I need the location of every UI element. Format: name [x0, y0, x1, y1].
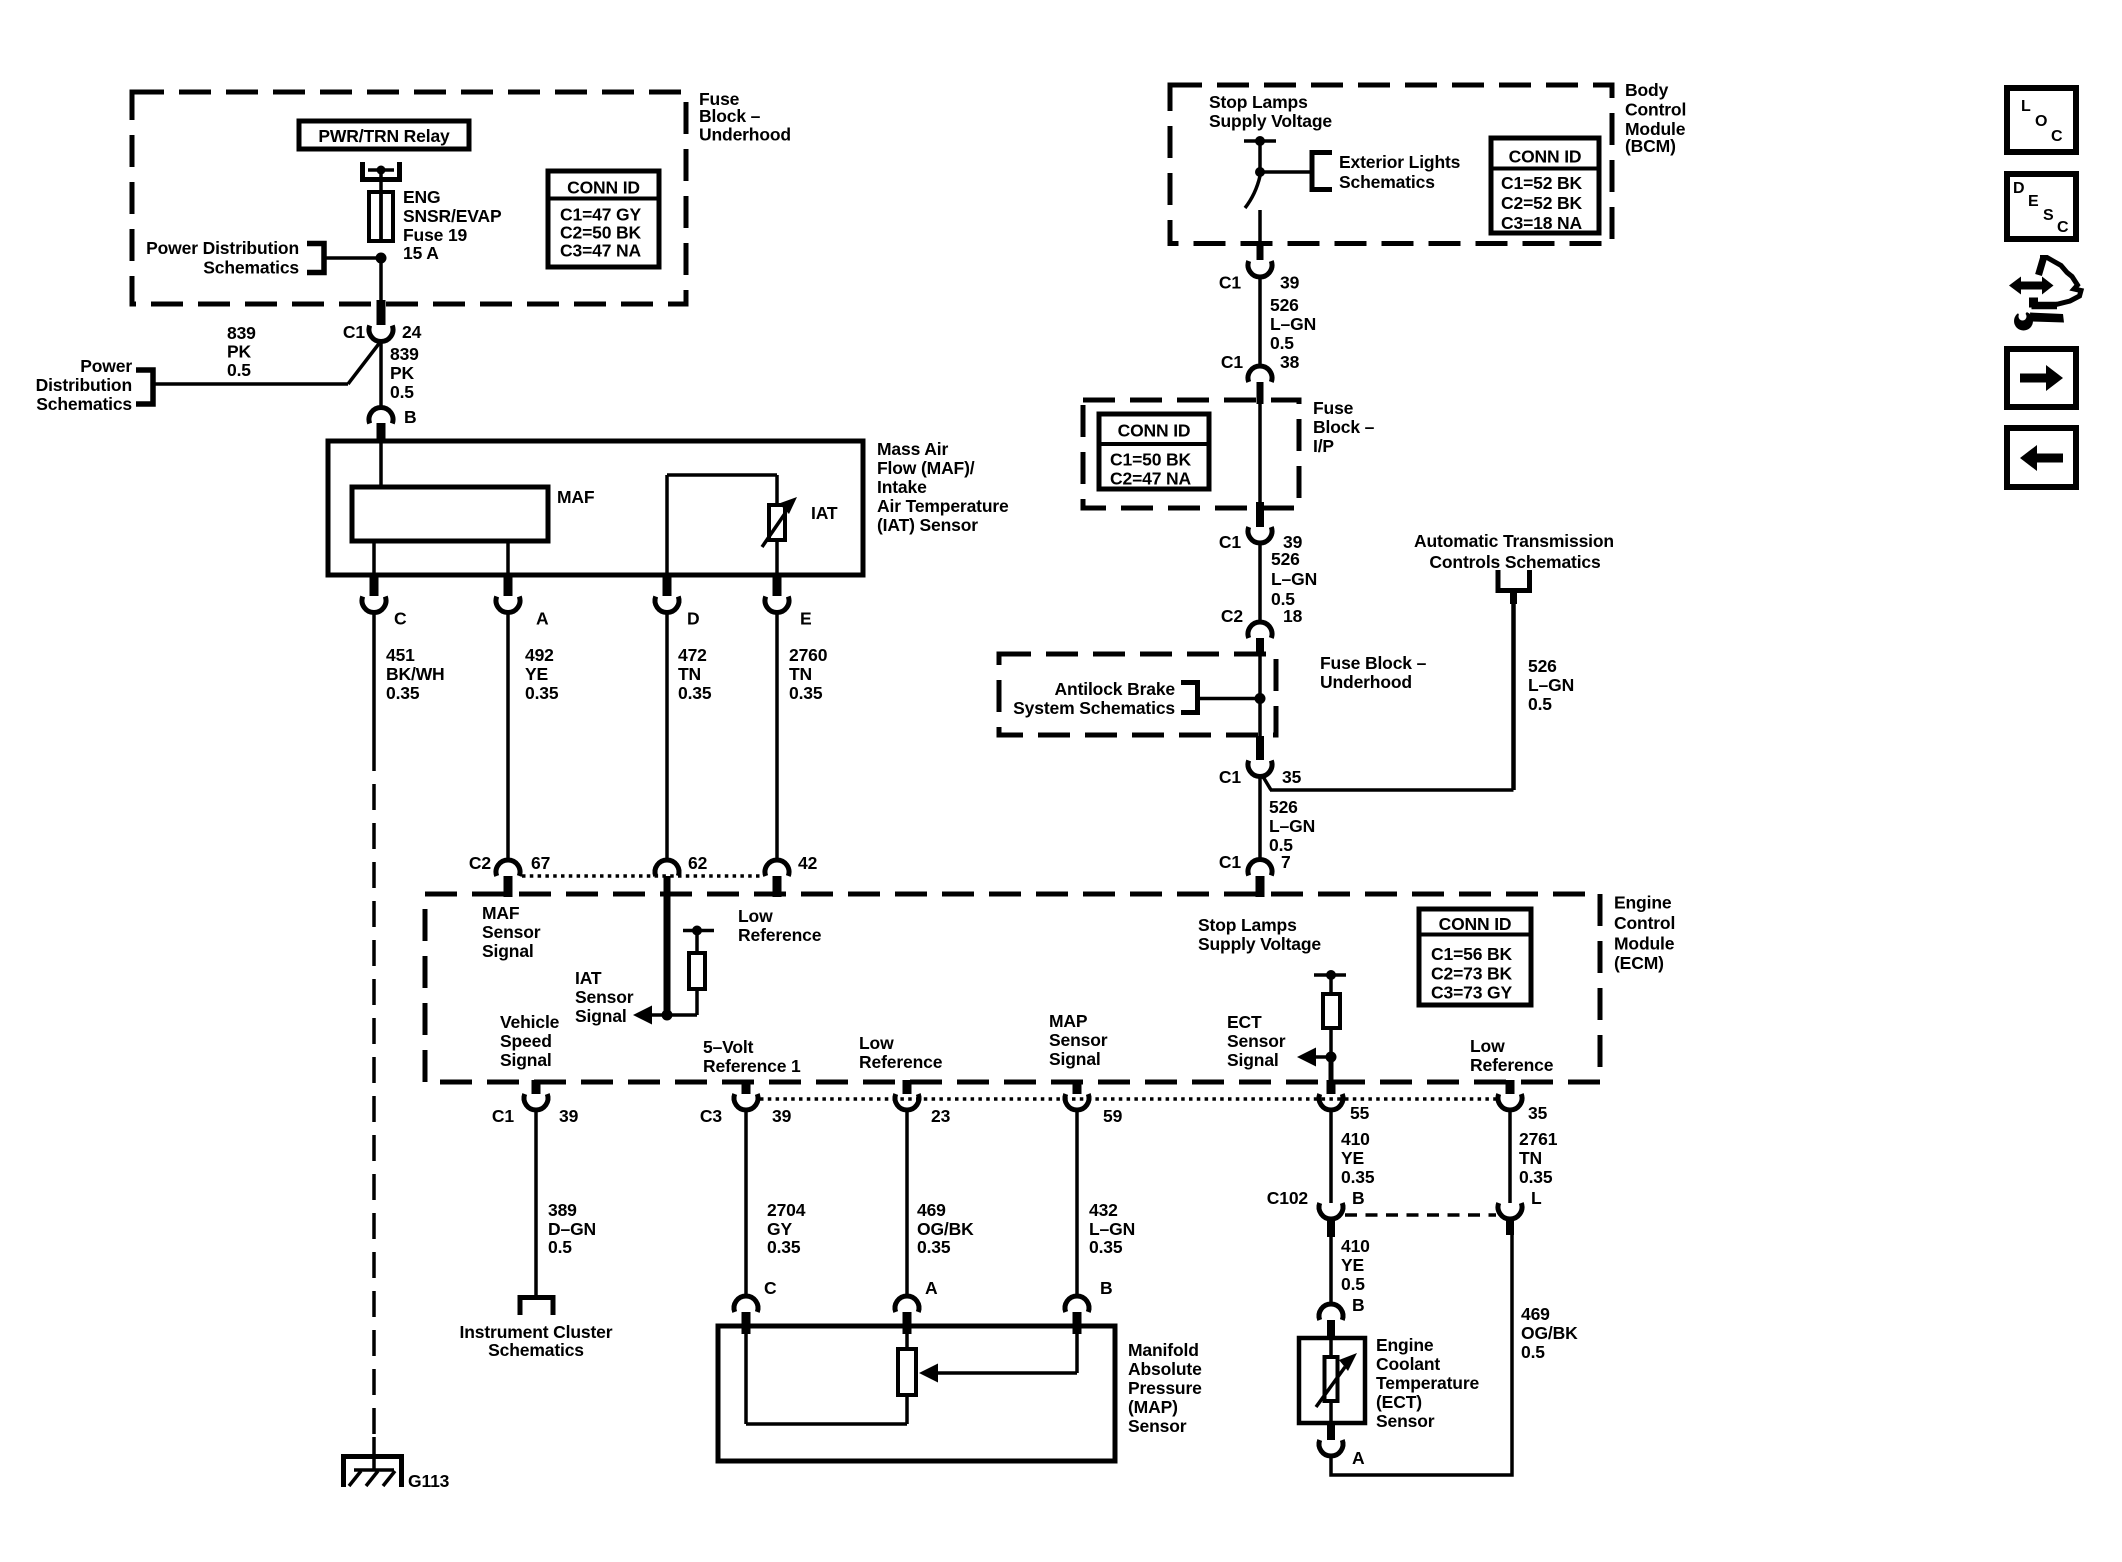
svg-text:410: 410: [1341, 1236, 1370, 1256]
svg-text:B: B: [1352, 1188, 1365, 1208]
wire 432 L-GN 0.35: [1077, 1110, 1135, 1297]
svg-text:Low: Low: [859, 1033, 894, 1053]
svg-text:Sensor: Sensor: [1227, 1031, 1286, 1051]
svg-text:Exterior Lights: Exterior Lights: [1339, 152, 1461, 172]
svg-text:526: 526: [1271, 549, 1300, 569]
svg-text:Supply Voltage: Supply Voltage: [1209, 111, 1332, 131]
svg-text:GY: GY: [767, 1219, 792, 1239]
connector pin D: [655, 577, 700, 629]
wire 2704 GY 0.35: [746, 1110, 806, 1297]
svg-text:Schematics: Schematics: [203, 258, 299, 278]
svg-text:Signal: Signal: [482, 941, 534, 961]
label: Fuse Block - Underhood: [699, 89, 791, 145]
connector C1 pin 39 (vehicle speed): [492, 1080, 579, 1126]
label: Low Reference (MAP): [859, 1033, 943, 1072]
svg-text:(ECM): (ECM): [1614, 953, 1664, 973]
svg-text:389: 389: [548, 1200, 577, 1220]
svg-text:39: 39: [772, 1106, 792, 1126]
bracket to power distribution schematics: [307, 244, 324, 273]
connector C2 pin 67: [469, 853, 550, 897]
svg-text:MAP: MAP: [1049, 1011, 1088, 1031]
connector pin A (MAP): [895, 1278, 938, 1334]
svg-text:7: 7: [1281, 852, 1291, 872]
ECT sense element resistor: [1314, 970, 1346, 1058]
svg-text:42: 42: [798, 853, 818, 873]
wire antilock bracket to node: [1198, 693, 1266, 704]
svg-text:0.35: 0.35: [917, 1237, 951, 1257]
ECT thermistor: [1316, 1338, 1357, 1423]
svg-text:839: 839: [390, 344, 419, 364]
label: Mass Air Flow (MAF)/Intake Air Temperature (IAT) Sensor: [877, 439, 1009, 535]
svg-text:526: 526: [1270, 295, 1299, 315]
svg-text:IAT: IAT: [575, 968, 602, 988]
svg-text:CONN ID: CONN ID: [1509, 147, 1582, 167]
svg-text:0.5: 0.5: [227, 360, 251, 380]
svg-text:D: D: [2013, 180, 2024, 197]
svg-text:L–GN: L–GN: [1089, 1219, 1135, 1239]
svg-text:C3: C3: [700, 1106, 722, 1126]
svg-text:C1: C1: [1219, 767, 1241, 787]
svg-text:Air Temperature: Air Temperature: [877, 496, 1009, 516]
svg-text:L–GN: L–GN: [1269, 816, 1315, 836]
svg-text:Schematics: Schematics: [1339, 172, 1435, 192]
svg-text:B: B: [1352, 1295, 1365, 1315]
label: Manifold Absolute Pressure (MAP) Sensor: [1128, 1340, 1202, 1436]
svg-text:Sensor: Sensor: [482, 922, 541, 942]
MAF/IAT sensor box: [328, 441, 863, 575]
svg-text:A: A: [925, 1278, 938, 1298]
svg-text:0.35: 0.35: [1089, 1237, 1123, 1257]
harness dashed line at C102: [1345, 1213, 1496, 1217]
MAP sensor box: [718, 1326, 1115, 1461]
IAT element (variable resistor): [667, 475, 838, 575]
svg-text:0.35: 0.35: [525, 683, 559, 703]
svg-text:C1: C1: [1221, 352, 1243, 372]
connector C2 pin 18: [1221, 606, 1303, 656]
svg-text:Sensor: Sensor: [575, 987, 634, 1007]
svg-text:L–GN: L–GN: [1271, 569, 1317, 589]
svg-text:System Schematics: System Schematics: [1013, 698, 1175, 718]
label: Antilock Brake System Schematics: [1013, 679, 1175, 718]
svg-text:Temperature: Temperature: [1376, 1373, 1479, 1393]
svg-text:Signal: Signal: [500, 1050, 552, 1070]
svg-text:Signal: Signal: [1049, 1049, 1101, 1069]
svg-text:Instrument Cluster: Instrument Cluster: [460, 1322, 613, 1342]
svg-text:59: 59: [1103, 1106, 1123, 1126]
svg-text:55: 55: [1350, 1103, 1370, 1123]
svg-text:Block –: Block –: [1313, 417, 1375, 437]
relay PWR/TRN contact symbol: [363, 162, 400, 180]
connector C2 pin 42: [765, 853, 818, 897]
svg-text:C3=18 NA: C3=18 NA: [1501, 213, 1583, 233]
icon next arrow button: [2007, 349, 2076, 407]
wire 526 L-GN 0.5 (ATC): [1514, 589, 1575, 790]
svg-text:MAF: MAF: [482, 903, 520, 923]
wire B into MAF element: [379, 441, 383, 487]
svg-text:35: 35: [1282, 767, 1302, 787]
label: Fuse Block - I/P: [1313, 398, 1375, 456]
wire 469 OG/BK 0.35: [907, 1110, 974, 1297]
svg-text:432: 432: [1089, 1200, 1118, 1220]
wire 839 PK 0.5 (to MAF sensor): [381, 341, 419, 408]
svg-text:Module: Module: [1614, 934, 1675, 954]
svg-text:Signal: Signal: [1227, 1050, 1279, 1070]
svg-text:Fuse 19: Fuse 19: [403, 225, 468, 245]
connector C102 pin L: [1498, 1188, 1542, 1235]
svg-text:18: 18: [1283, 606, 1303, 626]
conn id table (fuse block I/P): [1099, 414, 1209, 489]
svg-text:MAF: MAF: [557, 487, 595, 507]
svg-text:A: A: [1352, 1448, 1365, 1468]
icon back arrow button: [2007, 428, 2076, 487]
wire MAF pin A: [506, 541, 510, 578]
fuse block - I/P (dashed box): [1083, 400, 1299, 508]
svg-text:Manifold: Manifold: [1128, 1340, 1199, 1360]
svg-text:C1: C1: [492, 1106, 514, 1126]
branch wire to automatic transmission controls: [1262, 775, 1514, 790]
label: Body Control Module (BCM): [1625, 80, 1686, 156]
ground G113: [344, 1437, 450, 1491]
svg-text:C1=56 BK: C1=56 BK: [1431, 944, 1513, 964]
svg-text:Power: Power: [80, 356, 132, 376]
connector B (MAF sensor input): [369, 407, 417, 441]
svg-text:OG/BK: OG/BK: [917, 1219, 974, 1239]
fuse block - underhood right (dashed box): [999, 654, 1276, 735]
svg-text:C: C: [394, 609, 407, 629]
label: Low Reference (IAT): [738, 906, 822, 945]
harness dotted line at ECM pins: [760, 1097, 1496, 1101]
connector C102 pin B: [1267, 1188, 1365, 1237]
svg-text:C1: C1: [1219, 532, 1241, 552]
connector C3 pin 39 (5-volt reference): [700, 1080, 792, 1126]
connector pin 59 (MAP signal): [1065, 1080, 1123, 1126]
wire 2761 TN 0.35: [1510, 1110, 1558, 1203]
wire 389 D-GN 0.5: [536, 1110, 596, 1297]
connector pin C (MAP): [734, 1278, 777, 1334]
svg-text:CONN ID: CONN ID: [567, 178, 640, 198]
connector C1 pin 38: [1221, 352, 1300, 404]
svg-text:L–GN: L–GN: [1270, 314, 1316, 334]
svg-text:TN: TN: [1519, 1148, 1542, 1168]
svg-text:Engine: Engine: [1376, 1335, 1434, 1355]
wire IAT pin E: [775, 540, 779, 578]
bracket antilock brake: [1181, 683, 1198, 713]
svg-text:PK: PK: [227, 342, 252, 362]
svg-text:Control: Control: [1614, 913, 1675, 933]
label: Automatic Transmission Controls Schematics: [1414, 531, 1614, 572]
wire BCM node to switch: [1255, 141, 1265, 177]
svg-text:0.35: 0.35: [678, 683, 712, 703]
wire MAF pin C: [372, 541, 376, 578]
svg-text:472: 472: [678, 645, 707, 665]
relay PWR/TRN name box: [299, 121, 469, 149]
svg-text:0.35: 0.35: [767, 1237, 801, 1257]
svg-text:C1=47 GY: C1=47 GY: [560, 205, 641, 225]
svg-text:OG/BK: OG/BK: [1521, 1323, 1578, 1343]
label: 5-Volt Reference 1: [703, 1037, 801, 1076]
bracket at power distribution schematics (left): [136, 370, 153, 404]
svg-text:Antilock Brake: Antilock Brake: [1055, 679, 1176, 699]
wire and arrow IAT sensor signal: [633, 1006, 697, 1025]
svg-text:Controls Schematics: Controls Schematics: [1429, 552, 1601, 572]
wire 410 YE 0.5: [1331, 1236, 1370, 1304]
engine control module (dashed box): [425, 894, 1600, 1082]
label: Power Distribution Schematics (left): [36, 356, 133, 414]
dashed wire to ground G113: [372, 745, 376, 1440]
wire and arrow ECT sensor signal: [1297, 1048, 1337, 1081]
connector pin E: [765, 577, 812, 629]
svg-text:C1: C1: [1219, 852, 1241, 872]
svg-text:62: 62: [688, 853, 708, 873]
conn id table (BCM): [1491, 138, 1599, 233]
label: Power Distribution Schematics (in fuse block): [146, 238, 299, 278]
svg-text:Schematics: Schematics: [488, 1340, 584, 1360]
svg-text:C2=47 NA: C2=47 NA: [1110, 469, 1192, 489]
label: ECT Sensor Signal: [1227, 1012, 1286, 1070]
svg-text:Intake: Intake: [877, 477, 927, 497]
svg-text:5–Volt: 5–Volt: [703, 1037, 754, 1057]
ECT sensor box: [1299, 1338, 1365, 1423]
svg-text:526: 526: [1528, 656, 1557, 676]
wire 410 YE 0.35: [1331, 1110, 1375, 1203]
svg-text:C: C: [2051, 128, 2063, 145]
IAT sense element resistor: [683, 926, 714, 1016]
svg-text:Low: Low: [738, 906, 773, 926]
wire to exterior lights bracket: [1260, 170, 1311, 174]
svg-text:Power Distribution: Power Distribution: [146, 238, 299, 258]
MAP potentiometer: [746, 1326, 916, 1424]
svg-text:469: 469: [1521, 1304, 1550, 1324]
label: Vehicle Speed Signal: [500, 1012, 560, 1070]
svg-text:492: 492: [525, 645, 554, 665]
svg-text:Fuse Block –: Fuse Block –: [1320, 653, 1427, 673]
svg-text:Fuse: Fuse: [1313, 398, 1354, 418]
svg-text:C2=52 BK: C2=52 BK: [1501, 193, 1583, 213]
svg-text:ENG: ENG: [403, 187, 440, 207]
svg-text:(ECT): (ECT): [1376, 1392, 1422, 1412]
wire 469 OG/BK 0.5: [1331, 1235, 1578, 1475]
wire fuse output to power distribution bracket: [324, 256, 381, 260]
connector C1 pin 39 (BCM): [1219, 261, 1300, 293]
svg-text:C: C: [2057, 219, 2069, 236]
wire 472 TN 0.35: [667, 612, 712, 860]
svg-text:C2: C2: [469, 853, 491, 873]
svg-text:D–GN: D–GN: [548, 1219, 596, 1239]
svg-text:39: 39: [1280, 273, 1300, 293]
svg-text:469: 469: [917, 1200, 946, 1220]
wire 526 L-GN 0.5 (I/P to underhood): [1260, 543, 1317, 622]
svg-text:(IAT) Sensor: (IAT) Sensor: [877, 515, 978, 535]
svg-text:Engine: Engine: [1614, 893, 1672, 913]
bracket exterior lights: [1312, 153, 1332, 190]
wire through I/P fuse block: [1258, 404, 1262, 505]
svg-text:0.35: 0.35: [1341, 1167, 1375, 1187]
svg-text:Signal: Signal: [575, 1006, 627, 1026]
svg-text:451: 451: [386, 645, 415, 665]
svg-text:(MAP): (MAP): [1128, 1397, 1178, 1417]
conn id table (ECM): [1419, 909, 1531, 1005]
wire 526 L-GN 0.5 (to ECM): [1260, 778, 1315, 860]
connector C1 pin 39 (I/P out): [1219, 502, 1303, 552]
svg-text:TN: TN: [789, 664, 812, 684]
svg-text:2760: 2760: [789, 645, 828, 665]
svg-text:0.5: 0.5: [1528, 694, 1552, 714]
svg-text:Low: Low: [1470, 1036, 1505, 1056]
connector C1 pin 24: [343, 300, 422, 342]
BCM switch contact: [1245, 176, 1260, 208]
label: MAF Sensor Signal: [482, 903, 541, 961]
fuse block - underhood (dashed box): [132, 92, 686, 304]
svg-text:Sensor: Sensor: [1128, 1416, 1187, 1436]
svg-text:PWR/TRN Relay: PWR/TRN Relay: [318, 126, 450, 146]
svg-text:35: 35: [1528, 1103, 1548, 1123]
MAF element: [352, 487, 595, 541]
svg-text:S: S: [2043, 207, 2054, 224]
svg-text:0.5: 0.5: [1341, 1274, 1365, 1294]
svg-text:Sensor: Sensor: [1049, 1030, 1108, 1050]
svg-text:Reference 1: Reference 1: [703, 1056, 801, 1076]
svg-text:B: B: [404, 407, 417, 427]
svg-text:C1=52 BK: C1=52 BK: [1501, 173, 1583, 193]
svg-text:Sensor: Sensor: [1376, 1411, 1435, 1431]
svg-text:C1: C1: [1219, 273, 1241, 293]
svg-text:Distribution: Distribution: [36, 375, 132, 395]
svg-text:O: O: [2035, 113, 2047, 130]
label: Engine Control Module (ECM): [1614, 893, 1675, 974]
connector pin 23 (low reference): [895, 1080, 951, 1126]
svg-text:839: 839: [227, 323, 256, 343]
svg-text:ECT: ECT: [1227, 1012, 1262, 1032]
svg-text:Stop Lamps: Stop Lamps: [1198, 915, 1297, 935]
svg-text:0.35: 0.35: [1519, 1167, 1553, 1187]
svg-text:39: 39: [559, 1106, 579, 1126]
svg-text:Underhood: Underhood: [1320, 672, 1412, 692]
label: Exterior Lights Schematics: [1339, 152, 1461, 192]
harness dotted line at connector C2: [522, 874, 763, 878]
svg-text:B: B: [1100, 1278, 1113, 1298]
svg-text:YE: YE: [1341, 1255, 1364, 1275]
wire fuse to connector C1: [379, 258, 383, 301]
label: MAP Sensor Signal: [1049, 1011, 1108, 1069]
svg-text:0.35: 0.35: [789, 683, 823, 703]
svg-text:23: 23: [931, 1106, 951, 1126]
svg-text:A: A: [536, 609, 549, 629]
conn id table (fuse block underhood): [548, 171, 659, 267]
svg-text:BK/WH: BK/WH: [386, 664, 445, 684]
svg-text:Flow (MAF)/: Flow (MAF)/: [877, 458, 975, 478]
svg-text:E: E: [800, 609, 812, 629]
svg-text:G113: G113: [408, 1471, 450, 1491]
svg-text:SNSR/EVAP: SNSR/EVAP: [403, 206, 502, 226]
icon schematic reference (arrows, outline, wrench): [2009, 258, 2081, 331]
svg-text:L: L: [2021, 98, 2031, 115]
svg-text:Block –: Block –: [699, 106, 761, 126]
svg-text:Schematics: Schematics: [36, 394, 132, 414]
svg-text:C2: C2: [1221, 606, 1243, 626]
MAP wiper arrow: [919, 1326, 1077, 1383]
svg-text:Coolant: Coolant: [1376, 1354, 1440, 1374]
svg-text:CONN ID: CONN ID: [1439, 914, 1512, 934]
svg-text:C2=50 BK: C2=50 BK: [560, 223, 642, 243]
svg-text:Speed: Speed: [500, 1031, 552, 1051]
svg-text:D: D: [687, 609, 700, 629]
wire IAT sensor signal (thick): [664, 876, 671, 1015]
svg-text:C1: C1: [343, 322, 365, 342]
label: Engine Coolant Temperature (ECT) Sensor: [1376, 1335, 1479, 1431]
connector B (ECT sensor): [1319, 1295, 1365, 1340]
connector C1 pin 35: [1219, 736, 1302, 787]
label: Instrument Cluster Schematics: [460, 1322, 613, 1360]
BCM stop lamp feed node: [1244, 136, 1276, 146]
svg-text:526: 526: [1269, 797, 1298, 817]
svg-text:67: 67: [531, 853, 550, 873]
wire relay to fuse: [379, 170, 383, 241]
svg-text:C3=73 GY: C3=73 GY: [1431, 983, 1512, 1003]
svg-text:YE: YE: [525, 664, 548, 684]
svg-text:I/P: I/P: [1313, 436, 1334, 456]
svg-text:Reference: Reference: [859, 1052, 943, 1072]
svg-text:2761: 2761: [1519, 1129, 1558, 1149]
label: 839 PK 0.5 (branch): [227, 323, 256, 380]
svg-text:24: 24: [402, 322, 422, 342]
svg-text:Reference: Reference: [738, 925, 822, 945]
icon DESC button: [2007, 174, 2076, 239]
wire switch to connector C1: [1258, 210, 1262, 260]
svg-text:YE: YE: [1341, 1148, 1364, 1168]
svg-text:15 A: 15 A: [403, 243, 439, 263]
svg-text:Body: Body: [1625, 80, 1669, 100]
connector pin A: [496, 577, 549, 629]
connector pin C: [362, 577, 407, 629]
svg-text:L: L: [1531, 1188, 1542, 1208]
svg-text:C: C: [764, 1278, 777, 1298]
svg-text:Stop Lamps: Stop Lamps: [1209, 92, 1308, 112]
svg-text:C102: C102: [1267, 1188, 1309, 1208]
svg-text:Vehicle: Vehicle: [500, 1012, 560, 1032]
svg-text:Control: Control: [1625, 100, 1686, 120]
label: IAT Sensor Signal: [575, 968, 634, 1026]
svg-text:Absolute: Absolute: [1128, 1359, 1202, 1379]
svg-text:Automatic Transmission: Automatic Transmission: [1414, 531, 1614, 551]
body control module (dashed box): [1170, 85, 1612, 244]
svg-text:C2=73 BK: C2=73 BK: [1431, 964, 1513, 984]
bracket automatic transmission controls: [1498, 570, 1530, 591]
svg-text:0.5: 0.5: [548, 1237, 572, 1257]
svg-text:PK: PK: [390, 363, 415, 383]
svg-text:E: E: [2028, 193, 2039, 210]
connector C2 pin 62: [655, 853, 708, 876]
label: Stop Lamps Supply Voltage (BCM): [1209, 92, 1332, 131]
svg-text:0.35: 0.35: [386, 683, 420, 703]
wire 451 BK/WH 0.35: [374, 612, 445, 745]
connector A (ECT sensor): [1319, 1423, 1365, 1468]
junction dot at fuse output: [376, 253, 387, 264]
fuse ENG SNSR/EVAP Fuse 19 15 A: [369, 187, 502, 263]
label: Stop Lamps Supply Voltage (ECM): [1198, 915, 1321, 954]
connector pin 55 (ECT signal): [1319, 1080, 1370, 1123]
connector C1 pin 7: [1219, 852, 1291, 897]
icon LOC button: [2007, 88, 2076, 152]
svg-text:Mass Air: Mass Air: [877, 439, 948, 459]
svg-text:C3=47 NA: C3=47 NA: [560, 241, 642, 261]
svg-text:Supply Voltage: Supply Voltage: [1198, 934, 1321, 954]
label: Low Reference (right): [1470, 1036, 1554, 1075]
svg-text:2704: 2704: [767, 1200, 806, 1220]
svg-text:L–GN: L–GN: [1528, 675, 1574, 695]
wire 2760 TN 0.35: [777, 612, 828, 860]
svg-text:0.5: 0.5: [1521, 1342, 1545, 1362]
svg-text:(BCM): (BCM): [1625, 136, 1676, 156]
